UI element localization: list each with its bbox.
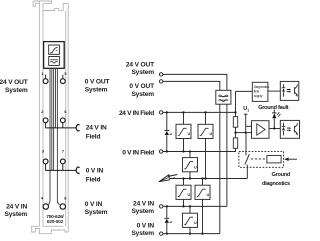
svg-text:System: System bbox=[5, 211, 28, 218]
svg-text:0 V IN: 0 V IN bbox=[85, 201, 103, 208]
terminal 7 stem bbox=[62, 164, 64, 171]
pin wires of monitor box F bbox=[189, 206, 191, 233]
resistor R3 (ground diagnostics) bbox=[267, 156, 281, 163]
monitor box F (U threshold, 24 V System) bbox=[183, 213, 198, 227]
wire upper amplifier input bbox=[246, 125, 252, 127]
functional earth arrow symbol bbox=[159, 175, 177, 182]
svg-text:System: System bbox=[5, 87, 28, 94]
junction dots earth rail bbox=[182, 177, 206, 179]
svg-text:diagnostics: diagnostics bbox=[262, 181, 290, 187]
terminal 6 contact bbox=[60, 118, 65, 123]
junction dots divider/amplifier node bbox=[234, 127, 275, 133]
monitor box E (U threshold, 0 V System to earth) bbox=[195, 185, 210, 199]
terminal 1 contact bbox=[43, 79, 48, 84]
svg-text:1: 1 bbox=[41, 71, 44, 76]
svg-text:U: U bbox=[194, 221, 197, 225]
ground fault LED bbox=[272, 109, 281, 128]
filter symbol box inside electronics block bbox=[49, 57, 60, 66]
svg-text:6: 6 bbox=[64, 109, 67, 114]
terminal 4 contact bbox=[43, 204, 48, 209]
svg-text:24 V OUT: 24 V OUT bbox=[126, 62, 154, 69]
wire functional earth rail bbox=[170, 178, 247, 180]
svg-text:8: 8 bbox=[64, 196, 67, 201]
pin wires of monitor box C bbox=[189, 152, 191, 179]
terminal 3 contact bbox=[43, 159, 48, 164]
optocoupler U1 (diagnostics supply status) bbox=[280, 81, 299, 100]
module type label 750-626/020-002 bbox=[46, 214, 64, 225]
dashed actuation link switch to resistor bbox=[251, 158, 267, 160]
label Ground diagnostics bbox=[262, 172, 291, 187]
svg-text:3: 3 bbox=[42, 149, 45, 154]
configuration arrow into R3 bbox=[284, 157, 297, 161]
terminal 24 V OUT System bbox=[159, 73, 162, 76]
terminal 7 contact bbox=[60, 159, 65, 164]
wire 24 V IN Field rail bbox=[163, 111, 236, 113]
label U1 bbox=[243, 106, 249, 112]
resistor R1 (divider upper) bbox=[233, 117, 237, 128]
wire junction to switch S1 bbox=[245, 133, 247, 156]
svg-text:0 V OUT: 0 V OUT bbox=[129, 83, 154, 90]
svg-text:System: System bbox=[131, 208, 154, 215]
svg-text:0 V IN: 0 V IN bbox=[86, 168, 104, 175]
terminal 0 V IN System bbox=[160, 232, 163, 235]
electronics block (module function unit) bbox=[44, 42, 65, 69]
ground diagnostics dashed enclosure bbox=[239, 151, 284, 167]
svg-text:System: System bbox=[85, 209, 108, 216]
svg-text:020-002: 020-002 bbox=[47, 219, 64, 225]
terminal 24 V IN Field bbox=[159, 111, 162, 114]
wire R2 to 0 V Field rail bbox=[235, 148, 237, 151]
amplifier A1 (ground-fault comparator) bbox=[252, 121, 270, 139]
svg-text:System: System bbox=[85, 86, 108, 93]
svg-text:24 V IN Field: 24 V IN Field bbox=[119, 110, 154, 117]
pin wires of monitor box A bbox=[183, 112, 185, 151]
surge/step symbol box inside electronics block bbox=[49, 45, 60, 54]
svg-text:Ground fault: Ground fault bbox=[258, 105, 289, 111]
wire 0 V IN Field rail bbox=[163, 148, 236, 151]
net label 24 V IN Field (module clamp) bbox=[86, 125, 107, 141]
pin wires of monitor box E bbox=[202, 179, 204, 234]
pin wires of monitor box B bbox=[205, 112, 207, 178]
junction dots 0 V Field rail bbox=[166, 150, 192, 152]
svg-text:24 V OUT: 24 V OUT bbox=[0, 79, 28, 86]
terminal 5 contact bbox=[60, 79, 65, 84]
terminal pin numbers 1-8 bbox=[41, 71, 68, 201]
terminal 24 V IN System bbox=[160, 205, 163, 208]
pin wires of monitor box D bbox=[183, 179, 185, 207]
net label 24 V IN System (schematic) bbox=[131, 201, 154, 216]
svg-text:24 V IN: 24 V IN bbox=[133, 201, 154, 208]
svg-text:U: U bbox=[188, 193, 191, 197]
terminal 5 stem bbox=[62, 75, 64, 79]
cage clamp 24 V IN Field bbox=[76, 125, 79, 131]
wire 0 V IN System rail bbox=[163, 233, 220, 235]
terminal 1 stem bbox=[45, 75, 47, 79]
wire 24 V IN System rail bbox=[163, 205, 227, 207]
net label 0 V IN System (module right bottom) bbox=[85, 201, 108, 216]
wire 24 V Field to diagnostics supply bbox=[235, 91, 237, 116]
net label 24 V OUT System (module left top) bbox=[0, 79, 28, 94]
svg-text:2: 2 bbox=[41, 109, 44, 114]
svg-text:Ground: Ground bbox=[271, 172, 290, 178]
monitor box B (U threshold, 24 V Field to earth) bbox=[198, 124, 213, 138]
svg-text:7: 7 bbox=[62, 149, 64, 154]
net label 0 V IN System (schematic) bbox=[131, 223, 154, 238]
wire 0 V OUT System to filter top bbox=[163, 81, 220, 90]
monitor box A (U threshold, 24 V Field) bbox=[176, 124, 191, 138]
junction dots 24 V System rail bbox=[166, 205, 192, 207]
svg-text:System: System bbox=[131, 69, 154, 76]
internal power jumper bus wires bbox=[48, 69, 60, 205]
wire diagnostics supply to optocoupler U1 bbox=[268, 90, 280, 92]
svg-text:0 V OUT: 0 V OUT bbox=[85, 79, 110, 86]
optocoupler U2 (ground fault signal) bbox=[280, 120, 299, 138]
wire R1 to R2 junction bbox=[235, 127, 237, 138]
terminal 0 V OUT System bbox=[159, 80, 162, 83]
svg-text:1: 1 bbox=[247, 109, 249, 113]
terminal 0 V IN Field bbox=[159, 150, 162, 153]
svg-text:24 V IN: 24 V IN bbox=[6, 204, 27, 211]
wire amplifier output to optocoupler U2 bbox=[269, 128, 280, 130]
svg-text:Field: Field bbox=[86, 134, 101, 141]
wire 24 V OUT System to filter top bbox=[163, 74, 227, 90]
svg-text:System: System bbox=[131, 91, 154, 98]
cage clamp 0 V IN Field bbox=[76, 167, 79, 173]
svg-text:24 V IN: 24 V IN bbox=[86, 125, 107, 132]
diagnostics field supply unit bbox=[252, 82, 269, 101]
junction dots 24 V Field rail bbox=[166, 111, 237, 113]
terminal 2 contact bbox=[43, 118, 48, 123]
wire filter bottom-right to 24 V IN System line bbox=[226, 104, 228, 206]
wire terminal 2 to field clamp bbox=[46, 123, 77, 128]
svg-text:U: U bbox=[207, 193, 210, 197]
terminal 8 contact bbox=[60, 204, 65, 209]
wire switch S1 to earth rail bbox=[246, 165, 248, 179]
wire divider junction to amplifier bbox=[236, 132, 252, 134]
terminal 6 stem bbox=[62, 123, 64, 128]
net label 0 V OUT System (module right top) bbox=[85, 79, 110, 94]
suppressor diode D1 (field supply) bbox=[164, 112, 172, 151]
net label 0 V OUT System (schematic) bbox=[129, 83, 154, 98]
wire terminal 3 to field clamp bbox=[46, 164, 77, 171]
switch S1 blade (ground diagnostics) bbox=[245, 154, 249, 164]
filter FL1 (supply filter) bbox=[216, 90, 231, 104]
module housing outline (I/O module side view) bbox=[32, 1, 69, 234]
suppressor diode D2 (system supply) bbox=[164, 206, 172, 233]
svg-text:U: U bbox=[194, 166, 197, 170]
svg-text:0 V IN Field: 0 V IN Field bbox=[122, 150, 154, 157]
svg-text:System: System bbox=[131, 230, 154, 237]
svg-text:supply: supply bbox=[254, 94, 263, 98]
svg-text:U: U bbox=[210, 132, 213, 136]
net label 0 V IN Field (module clamp) bbox=[86, 168, 104, 184]
wire U1 point to junction bbox=[245, 114, 247, 132]
monitor box C (U threshold, 0 V Field to earth) bbox=[183, 158, 198, 172]
svg-text:0 V IN: 0 V IN bbox=[137, 223, 155, 230]
resistor R2 (divider lower) bbox=[233, 138, 237, 148]
svg-text:Field: Field bbox=[86, 177, 101, 184]
wire filter bottom-left to 0 V IN System line bbox=[219, 104, 221, 233]
U1 measuring point bar bbox=[244, 113, 248, 115]
monitor box D (U threshold, 24 V System to earth) bbox=[176, 185, 191, 199]
junction dots 0 V System rail bbox=[166, 232, 204, 234]
U letters of monitor boxes bbox=[188, 132, 213, 225]
net label 24 V OUT System (schematic) bbox=[126, 62, 154, 77]
svg-text:U: U bbox=[188, 132, 191, 136]
net label 24 V IN System (module left bottom) bbox=[5, 204, 28, 219]
svg-text:5: 5 bbox=[64, 71, 67, 76]
